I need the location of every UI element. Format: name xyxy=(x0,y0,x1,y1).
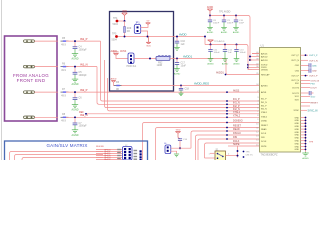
svg-text:DGND: DGND xyxy=(261,120,267,122)
svg-text:DOUT1: DOUT1 xyxy=(292,93,300,95)
svg-text:DIN: DIN xyxy=(233,136,237,139)
svg-text:IN1_N: IN1_N xyxy=(80,62,88,66)
resistor R3 xyxy=(61,88,69,98)
svg-text:CM 1%: CM 1% xyxy=(246,155,253,157)
svg-text:GND: GND xyxy=(295,132,300,134)
svg-text:10uF: 10uF xyxy=(181,64,187,67)
wire SDO xyxy=(228,145,238,147)
jumper JP1 xyxy=(134,21,140,34)
ground xyxy=(221,22,228,34)
wire AVDD_FB down to pin xyxy=(226,59,260,75)
wire AVDD_REG to IC xyxy=(121,85,260,87)
svg-text:SCO: SCO xyxy=(295,96,300,98)
svg-text:SDO: SDO xyxy=(295,100,300,102)
node xyxy=(224,44,226,46)
node IN2_N xyxy=(74,116,76,118)
svg-text:C18: C18 xyxy=(185,87,190,90)
svg-text:OUT1_N: OUT1_N xyxy=(291,60,299,62)
wire channel3 input xyxy=(35,91,59,93)
wire IN1_N routed down to IC xyxy=(97,67,260,105)
wire to node IN1_P xyxy=(66,40,101,42)
wire channel1 input xyxy=(35,40,59,42)
header J2 xyxy=(127,53,137,68)
capacitor C3 xyxy=(73,93,83,100)
svg-text:1uF: 1uF xyxy=(228,52,232,54)
capacitor C19 xyxy=(208,45,220,54)
svg-text:10nF: 10nF xyxy=(239,22,245,24)
capacitor C2 xyxy=(73,68,88,77)
power flag AVDD cluster A xyxy=(207,6,214,16)
ground xyxy=(174,43,180,50)
svg-text:1000pF: 1000pF xyxy=(79,125,88,128)
ground xyxy=(207,52,214,66)
node xyxy=(210,44,212,46)
svg-text:TP4: TP4 xyxy=(113,17,118,20)
svg-text:FSO: FSO xyxy=(295,83,300,85)
svg-text:GND: GND xyxy=(295,146,300,148)
capacitor C7 xyxy=(73,118,88,127)
svg-text:DCLK: DCLK xyxy=(261,141,267,143)
svg-text:SD0 NB: SD0 NB xyxy=(96,146,104,148)
node xyxy=(225,74,227,76)
svg-text:GND: GND xyxy=(295,143,300,145)
svg-text:AGND: AGND xyxy=(207,31,214,34)
svg-text:GND: GND xyxy=(295,126,300,128)
svg-text:RESET: RESET xyxy=(261,125,268,127)
svg-text:AVDD: AVDD xyxy=(207,6,214,9)
svg-text:AGND: AGND xyxy=(233,31,240,34)
svg-text:OUT2_P: OUT2_P xyxy=(291,75,299,77)
svg-text:GND: GND xyxy=(295,135,300,137)
svg-text:XTAL2: XTAL2 xyxy=(261,115,268,118)
svg-text:RESET: RESET xyxy=(311,103,319,105)
svg-text:XTAL1: XTAL1 xyxy=(261,111,268,114)
svg-text:GND: GND xyxy=(295,123,300,125)
wire channel2 input xyxy=(35,66,59,68)
capacitor C1 xyxy=(73,42,88,51)
svg-text:49.9: 49.9 xyxy=(61,94,66,97)
node xyxy=(147,36,149,38)
power flag VDD xyxy=(122,11,127,21)
svg-text:TP1 AVDD: TP1 AVDD xyxy=(219,10,231,13)
wire decoupling rail B xyxy=(205,45,252,70)
ground xyxy=(233,22,240,34)
svg-text:GAIN/SLV MATRIX: GAIN/SLV MATRIX xyxy=(47,143,88,148)
svg-text:1000pF: 1000pF xyxy=(79,48,88,51)
node xyxy=(209,15,211,17)
svg-text:49.9: 49.9 xyxy=(61,120,66,123)
node xyxy=(236,44,238,46)
wire GPIO2 xyxy=(191,131,260,148)
svg-text:AVDD3: AVDD3 xyxy=(261,59,268,62)
regulator output row xyxy=(111,78,122,91)
node xyxy=(243,156,245,158)
ground xyxy=(179,90,184,95)
svg-text:SYNC: SYNC xyxy=(293,110,299,112)
wire REF xyxy=(79,111,260,115)
capacitor C20 xyxy=(223,45,233,54)
svg-text:JP1: JP1 xyxy=(135,21,140,25)
ground xyxy=(222,52,229,66)
wire switch to DCLK tp xyxy=(237,146,239,158)
svg-text:OUT1_P: OUT1_P xyxy=(291,55,299,57)
svg-text:GND: GND xyxy=(295,138,300,140)
node xyxy=(124,36,126,38)
svg-text:1000pF: 1000pF xyxy=(79,74,88,77)
wire to header J2 xyxy=(116,55,128,58)
svg-text:REF: REF xyxy=(79,111,84,114)
svg-text:AGND: AGND xyxy=(207,62,214,65)
wire decoupling rail A xyxy=(210,16,252,61)
ground xyxy=(72,49,79,61)
pin name labels at IC left xyxy=(233,89,243,146)
node xyxy=(223,15,225,17)
svg-text:HDR 3x1: HDR 3x1 xyxy=(127,65,137,68)
svg-text:VDD: VDD xyxy=(122,11,127,13)
svg-text:49.9: 49.9 xyxy=(61,43,66,46)
svg-text:DSCLK: DSCLK xyxy=(233,132,241,135)
wire IN2_N to IC xyxy=(66,116,260,118)
power flag VDD mid xyxy=(146,37,151,48)
svg-text:CM1: CM1 xyxy=(312,65,317,67)
port connector IN2_P xyxy=(24,91,35,94)
svg-text:AVDD: AVDD xyxy=(179,32,187,36)
ground xyxy=(233,52,240,66)
svg-text:OUT2_N: OUT2_N xyxy=(311,80,320,82)
svg-text:GND: GND xyxy=(295,117,300,119)
matrix resistor marks xyxy=(117,149,121,159)
capacitor C15 xyxy=(234,16,245,25)
matrix row labels xyxy=(104,149,111,161)
svg-text:AGND: AGND xyxy=(221,31,228,34)
svg-text:IN2_P: IN2_P xyxy=(80,88,88,92)
wire to node IN1_N xyxy=(66,66,97,68)
IC right pin names inside xyxy=(291,55,300,112)
wire channel4 input xyxy=(35,116,59,118)
node xyxy=(237,155,239,157)
svg-text:DGNDIO: DGNDIO xyxy=(233,120,243,123)
wire XTAL2 xyxy=(108,78,260,111)
svg-text:IN1_N: IN1_N xyxy=(261,102,267,104)
capacitor C12 xyxy=(179,85,190,91)
svg-text:120R: 120R xyxy=(157,64,163,67)
svg-text:AGND: AGND xyxy=(72,134,79,137)
test point TP1 xyxy=(113,17,125,26)
bus loop 1 xyxy=(10,152,104,161)
power flag at J2 rail xyxy=(113,50,119,55)
test point TP5 xyxy=(112,32,125,41)
svg-text:AVDD: AVDD xyxy=(113,50,119,53)
port connector IN1_N xyxy=(24,65,35,68)
svg-text:100nF: 100nF xyxy=(213,22,220,24)
ferrite bead FB1 xyxy=(156,56,171,68)
svg-text:AGND: AGND xyxy=(72,83,79,86)
power flag VDD near switch xyxy=(175,129,180,138)
capacitor C10 xyxy=(175,36,186,46)
wire XTAL1 xyxy=(105,60,260,108)
svg-text:AVSS: AVSS xyxy=(261,91,267,94)
svg-text:VDD: VDD xyxy=(176,129,181,131)
svg-text:0R: 0R xyxy=(127,30,130,33)
svg-text:OUT2_P: OUT2_P xyxy=(309,76,318,78)
svg-text:AVDD: AVDD xyxy=(111,78,117,81)
svg-text:VDD: VDD xyxy=(146,46,151,48)
svg-text:AVDD1: AVDD1 xyxy=(216,72,224,75)
capacitor C11 xyxy=(175,58,187,68)
svg-text:1uF: 1uF xyxy=(181,43,186,46)
power flag AVDD cluster B xyxy=(204,36,225,45)
node xyxy=(237,150,239,152)
svg-text:REGCAP: REGCAP xyxy=(261,73,270,76)
svg-text:OUT2_N: OUT2_N xyxy=(291,80,299,82)
svg-text:SCLK: SCLK xyxy=(261,133,267,135)
svg-text:DIN: DIN xyxy=(261,137,265,139)
capacitor C22 xyxy=(178,139,188,149)
resistor R2 xyxy=(61,62,69,72)
svg-text:AGND: AGND xyxy=(174,72,181,75)
IC left pin stubs group A xyxy=(252,53,260,55)
hierarchical block GAIN/SLV MATRIX xyxy=(5,141,148,166)
svg-text:DRVDD: DRVDD xyxy=(261,69,269,71)
svg-text:GND: GND xyxy=(295,120,300,122)
svg-text:AVDD2: AVDD2 xyxy=(261,55,268,58)
hierarchical block FROM ANALOG FRONT END xyxy=(5,36,58,121)
port connector IN1_P xyxy=(24,40,35,43)
ground xyxy=(207,22,214,34)
matrix resistor marks right xyxy=(134,150,138,160)
svg-text:TAD3930BCPZ: TAD3930BCPZ xyxy=(261,153,279,156)
wire GPIO1 xyxy=(156,128,260,161)
svg-text:TP5: TP5 xyxy=(112,32,117,35)
IC left pin names xyxy=(261,52,270,148)
svg-text:DOUT: DOUT xyxy=(311,88,318,90)
ground xyxy=(72,125,79,137)
header J6 xyxy=(164,143,191,154)
power flag at JP1 xyxy=(141,21,151,28)
wire GPIO0 xyxy=(143,123,260,161)
svg-text:OUT1_P: OUT1_P xyxy=(309,55,318,57)
svg-text:IN1_P: IN1_P xyxy=(80,37,88,41)
GND pin names inside xyxy=(295,117,300,151)
ADC U1 xyxy=(260,44,301,157)
svg-text:IN2_N: IN2_N xyxy=(261,109,267,111)
svg-text:AVDD1: AVDD1 xyxy=(183,54,193,58)
svg-text:GND: GND xyxy=(295,129,300,131)
IC right bottom GND pins xyxy=(301,118,306,150)
ground at IC xyxy=(302,152,309,160)
capacitor C14 xyxy=(222,16,234,25)
svg-text:SCO: SCO xyxy=(311,96,316,98)
svg-text:SYNC_IN: SYNC_IN xyxy=(308,110,318,112)
wire GPIO4 xyxy=(198,139,260,160)
wire IN1_P routed down to IC xyxy=(101,41,260,101)
IC right pin stubs and labels top group xyxy=(301,54,319,77)
svg-text:AGND: AGND xyxy=(222,62,229,65)
svg-text:U1: U1 xyxy=(261,44,265,48)
wire ferrite to AVDD_FB xyxy=(170,58,226,60)
node xyxy=(243,151,245,153)
svg-text:TP2 AVDD: TP2 AVDD xyxy=(214,40,225,43)
svg-text:100nF: 100nF xyxy=(240,52,247,54)
matrix row wires xyxy=(96,150,122,160)
ground xyxy=(174,154,179,157)
svg-text:GND: GND xyxy=(295,149,300,151)
svg-text:AVSS: AVSS xyxy=(120,50,127,53)
capacitor C21 xyxy=(234,45,246,54)
wire J2 to ferrite xyxy=(134,58,156,60)
svg-text:GND: GND xyxy=(295,141,300,143)
wire IN2_P to IC xyxy=(66,91,260,93)
svg-text:IN2_P: IN2_P xyxy=(261,105,267,107)
svg-text:DOUT0: DOUT0 xyxy=(292,87,300,89)
GND bus wire xyxy=(305,118,307,153)
IC left pin numbers xyxy=(256,52,259,147)
ground xyxy=(72,74,79,86)
svg-text:0R: 0R xyxy=(116,88,119,91)
header J5 xyxy=(123,145,133,160)
svg-text:OUT1_N: OUT1_N xyxy=(309,60,318,62)
wire rail A to IC pins xyxy=(249,54,259,61)
ground xyxy=(174,65,181,76)
resistor R1 xyxy=(61,37,69,47)
svg-text:GPIO5: GPIO5 xyxy=(104,159,111,160)
svg-text:IN1_P: IN1_P xyxy=(261,98,267,100)
svg-text:5004: 5004 xyxy=(112,38,118,41)
svg-text:49.9: 49.9 xyxy=(61,69,66,72)
bus loop 3 xyxy=(22,158,103,161)
svg-text:READ: READ xyxy=(233,128,240,131)
wire AVDD rail xyxy=(125,36,206,38)
power supply block box xyxy=(110,12,174,92)
svg-text:AVSS: AVSS xyxy=(233,89,240,92)
svg-text:AGND: AGND xyxy=(302,157,309,160)
wire GPIO3 xyxy=(196,135,260,160)
svg-text:AVDD_REG: AVDD_REG xyxy=(194,82,209,86)
svg-text:FRONT END: FRONT END xyxy=(17,78,46,83)
svg-text:AGND: AGND xyxy=(233,62,240,65)
svg-text:AVDD1: AVDD1 xyxy=(261,52,268,55)
wire rail B to IC pins xyxy=(247,64,259,70)
node VDD xyxy=(124,20,126,22)
port connector IN2_N xyxy=(24,116,35,119)
wire JP1 to AVDD rail xyxy=(141,31,148,37)
page border xyxy=(1,0,3,160)
resistor R9 xyxy=(124,21,132,37)
capacitor C13 xyxy=(208,16,220,25)
svg-text:READ: READ xyxy=(261,128,267,131)
svg-text:CM2: CM2 xyxy=(312,71,317,73)
svg-text:FSO: FSO xyxy=(311,84,316,86)
node dots on band wires xyxy=(226,91,228,140)
resistor R4 xyxy=(61,113,69,123)
svg-text:100nF: 100nF xyxy=(227,22,234,24)
node IN1_N xyxy=(74,66,76,68)
node xyxy=(149,58,151,60)
svg-text:5004: 5004 xyxy=(113,23,119,26)
svg-text:SDPE: SDPE xyxy=(233,143,240,146)
node IN1_P xyxy=(74,40,76,42)
slide switch S1 xyxy=(209,148,238,162)
node xyxy=(235,15,237,17)
IC right mid pins xyxy=(301,80,320,112)
svg-text:AGND: AGND xyxy=(72,109,79,112)
ground xyxy=(72,100,79,112)
svg-text:SDPE: SDPE xyxy=(261,146,267,148)
bus loop 2 xyxy=(15,155,104,161)
node column xyxy=(140,150,142,160)
svg-text:AGND: AGND xyxy=(72,58,79,61)
svg-text:100nF: 100nF xyxy=(214,52,221,54)
svg-text:XTAL2: XTAL2 xyxy=(233,114,241,117)
node IN2_P xyxy=(74,91,76,93)
wire DCLK xyxy=(205,143,260,158)
svg-text:AVSSX: AVSSX xyxy=(261,84,268,87)
